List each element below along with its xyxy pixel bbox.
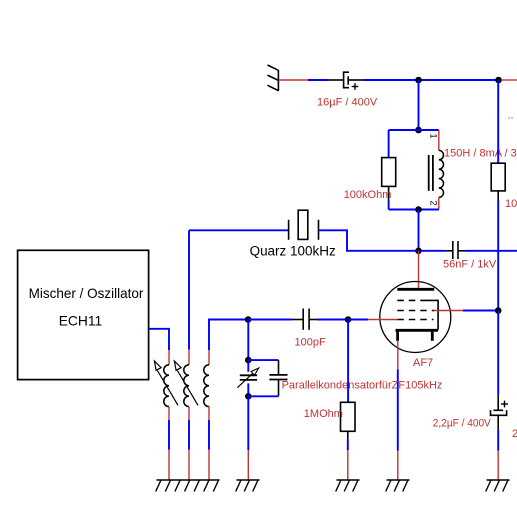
wire (168, 420, 170, 450)
wire (418, 210, 420, 251)
svg-text:10kOhm: 10kOhm (505, 198, 517, 210)
junction (495, 77, 502, 84)
junction (245, 316, 252, 323)
arrow trimmer (237, 373, 253, 388)
svg-text:100kOhm: 100kOhm (344, 189, 392, 201)
svg-text:100pF: 100pF (295, 337, 326, 349)
svg-text:ParallelkondensatorfürZF105kHz: ParallelkondensatorfürZF105kHz (282, 380, 443, 392)
arrow L2 (177, 371, 198, 406)
svg-text:2: 2 (429, 200, 439, 205)
junction (415, 77, 422, 84)
junction (245, 393, 252, 400)
wire (463, 310, 498, 312)
wire (247, 396, 249, 450)
svg-text:1: 1 (429, 133, 439, 138)
capacitor C5 2,2µF/400V (electrolytic) (497, 311, 499, 396)
wire (497, 80, 499, 163)
svg-text:2,: 2, (512, 428, 517, 440)
wire (389, 129, 439, 131)
wire (418, 80, 420, 130)
svg-text:Mischer / Oszillator: Mischer / Oszillator (29, 285, 144, 301)
wire (497, 200, 499, 311)
arrow L1 (157, 371, 178, 406)
wire (248, 319, 291, 321)
wire cathode down (397, 341, 399, 370)
ground (236, 480, 260, 492)
wire (208, 420, 210, 450)
svg-text:2,2µF / 400V: 2,2µF / 400V (433, 418, 492, 430)
quartz crystal Quarz 100kHz (189, 229, 288, 231)
wire (247, 320, 249, 361)
capacitor C2 56nF/1kV (445, 241, 466, 259)
ground (cathode) (386, 480, 410, 492)
grid 3 (397, 319, 433, 321)
inductor L4 150H/8mA (438, 130, 440, 150)
inductor L2 (variable) (188, 350, 190, 365)
wire (308, 79, 328, 81)
junction (495, 307, 502, 314)
wire (497, 430, 499, 451)
wire (188, 420, 190, 450)
inductor L1 (variable) (168, 350, 170, 365)
trimmer capacitor C4 (247, 360, 249, 372)
svg-text:1MOhm: 1MOhm (304, 408, 343, 420)
resistor R2 10kOhm (491, 163, 505, 191)
wire (502, 79, 517, 81)
svg-text:ECH11: ECH11 (59, 313, 103, 329)
junction (345, 316, 352, 323)
capacitor C1 16µF/400V (electrolytic) (328, 72, 363, 90)
wire (434, 310, 463, 312)
svg-text:56nF / 1kV: 56nF / 1kV (443, 259, 497, 271)
wire (389, 209, 439, 211)
wire (363, 79, 418, 81)
junction (415, 206, 422, 213)
junction (245, 357, 252, 364)
capacitor C3 100pF (292, 309, 318, 330)
grid 2 (397, 310, 434, 312)
inductor L3 (208, 350, 210, 365)
resistor R3 1MOhm (347, 320, 349, 403)
tube AF7 envelope (380, 282, 451, 353)
capacitor parallel (fixed) (248, 359, 278, 361)
wire anode lead (418, 251, 420, 289)
svg-text:Quarz 100kHz: Quarz 100kHz (250, 243, 336, 258)
wire 100pF line left corner (209, 320, 248, 351)
wire block to L1 (149, 329, 169, 350)
wire (466, 250, 517, 252)
wire grid3 lead (368, 319, 397, 321)
wire (419, 250, 446, 252)
junction (415, 248, 422, 255)
core (428, 155, 430, 191)
wire (317, 319, 348, 321)
ground (486, 480, 510, 492)
cathode (396, 329, 439, 332)
anode plate (397, 288, 434, 291)
wire (419, 79, 499, 81)
wire (319, 230, 419, 251)
junction (415, 127, 422, 134)
ground (wide, three coils) (156, 480, 220, 492)
block Mischer/Oszillator ECH11 (18, 250, 149, 379)
svg-text:150H / 8mA / 3,7: 150H / 8mA / 3,7 (444, 148, 517, 160)
svg-text:..: .. (508, 110, 514, 122)
wire (188, 230, 190, 349)
svg-text:AF7: AF7 (413, 357, 433, 369)
wire (278, 79, 308, 81)
chassis ground (top left) (268, 65, 279, 91)
grid 1 (397, 300, 438, 329)
ground (336, 480, 360, 492)
wire (348, 319, 368, 321)
svg-text:16µF / 400V: 16µF / 400V (317, 96, 378, 108)
resistor R1 100kOhm (388, 130, 390, 158)
